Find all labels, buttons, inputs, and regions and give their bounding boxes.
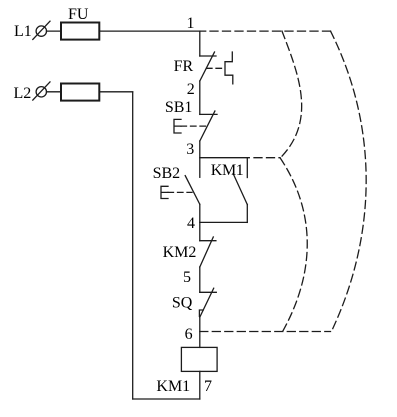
fuse FU — [61, 23, 99, 40]
wire KM2 to SQ — [199, 267, 201, 292]
svg-text:FU: FU — [68, 6, 89, 23]
contact FR (NC thermal overload) — [200, 52, 216, 81]
contact SB1 (NC pushbutton, stop) — [200, 111, 217, 141]
svg-text:4: 4 — [187, 215, 195, 232]
dashed brace inner lower arc — [280, 158, 307, 332]
wire node1 to FR — [199, 31, 201, 56]
svg-text:5: 5 — [183, 269, 191, 286]
wire left vertical (L2 return) — [132, 92, 134, 399]
contact KM1 auxiliary (NO, self-holding) — [233, 158, 247, 223]
terminal L2 — [33, 82, 50, 100]
coil KM1 — [181, 347, 217, 371]
wire FR to SB1 — [199, 81, 201, 114]
SB2 actuator E — [161, 186, 168, 198]
svg-text:KM1: KM1 — [211, 162, 244, 179]
svg-text:SQ: SQ — [172, 295, 193, 312]
svg-text:7: 7 — [204, 378, 212, 395]
svg-text:3: 3 — [186, 141, 194, 158]
wire node 4 horizontal — [200, 221, 248, 223]
dashed linkage middle (KM1 row) — [254, 157, 280, 159]
svg-text:L2: L2 — [14, 85, 32, 102]
svg-text:L1: L1 — [14, 23, 32, 40]
dashed brace outer arc — [331, 31, 367, 331]
dashed linkage top (node 1 to brace) — [210, 30, 331, 32]
wire SB2 to node 4 — [199, 204, 201, 240]
SB2 actuator dashes — [168, 191, 192, 193]
svg-text:6: 6 — [185, 326, 193, 343]
dashed linkage bottom (node 6 row) — [200, 331, 331, 333]
wire L2 fuse to corner — [99, 91, 132, 93]
SB1 actuator E — [174, 119, 181, 133]
contact KM2 (NC interlock) — [200, 237, 216, 267]
wire node 3 horizontal — [200, 157, 250, 159]
svg-text:FR: FR — [174, 58, 194, 75]
svg-text:KM2: KM2 — [163, 244, 197, 261]
svg-text:KM1: KM1 — [156, 378, 190, 395]
FR linkage dashes — [207, 67, 225, 69]
wire bottom horizontal — [133, 398, 200, 400]
dashed brace inner upper arc — [280, 31, 301, 158]
SB1 actuator dashes — [181, 125, 206, 127]
wire coil to bottom — [199, 371, 201, 399]
wire SQ to coil — [199, 317, 201, 347]
wire fuse to node 1 — [99, 30, 205, 32]
fuse FU (L2) — [61, 84, 99, 101]
svg-text:SB1: SB1 — [165, 99, 193, 116]
svg-text:1: 1 — [187, 15, 195, 32]
contact SB2 (NO pushbutton, start) — [185, 176, 200, 205]
FR thermal element symbol — [225, 52, 233, 84]
terminal L1 — [33, 21, 50, 39]
wire L2 terminal to fuse — [47, 91, 62, 93]
wire SB1 to node 3 to SB2 — [199, 141, 201, 177]
svg-text:2: 2 — [187, 81, 195, 98]
contact SQ (NC limit switch) — [199, 288, 216, 317]
svg-text:SB2: SB2 — [153, 165, 181, 182]
wire L1 terminal to fuse — [47, 30, 62, 32]
